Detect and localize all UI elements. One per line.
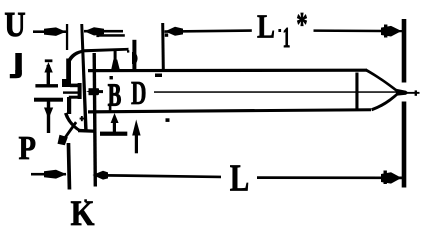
svg-text:1: 1 [283,22,291,54]
svg-text:L: L [257,8,275,45]
svg-text:K: K [71,193,95,233]
svg-text:B: B [108,78,122,113]
svg-text:L: L [230,158,250,200]
svg-text:*: * [296,6,308,43]
svg-text:D: D [131,75,147,112]
svg-text:P: P [19,130,37,167]
svg-text:U: U [5,6,26,44]
